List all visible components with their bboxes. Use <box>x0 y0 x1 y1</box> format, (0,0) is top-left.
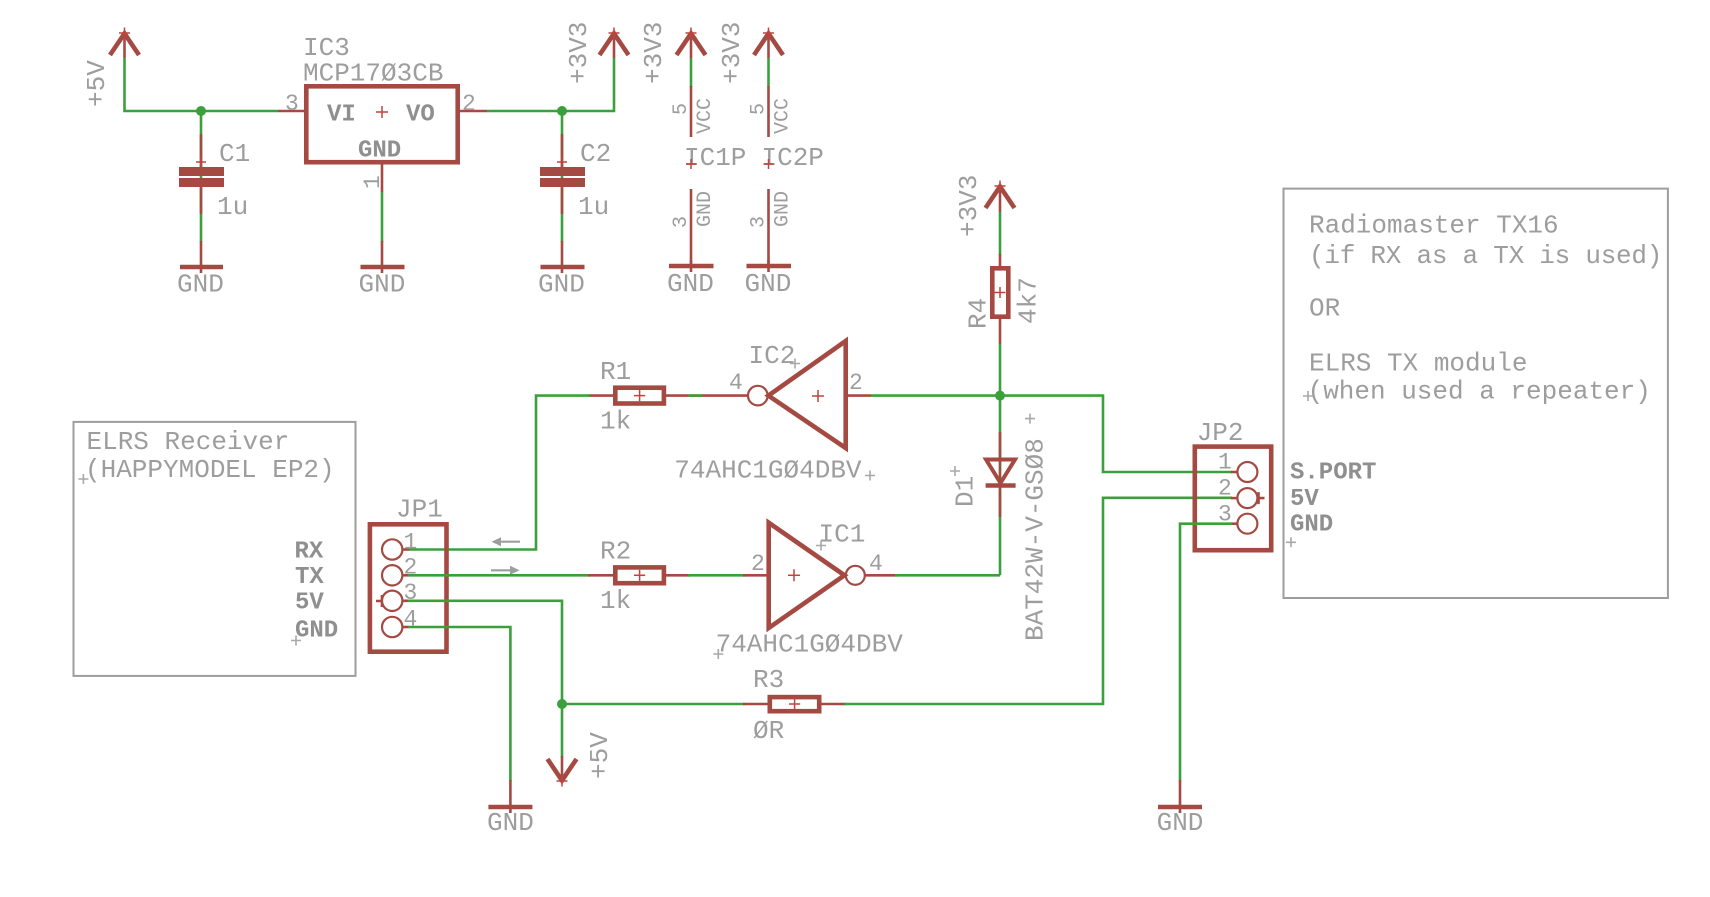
svg-text:4k7: 4k7 <box>1014 277 1044 324</box>
svg-text:+5V: +5V <box>585 732 615 779</box>
svg-text:5: 5 <box>748 103 771 115</box>
resistor R4 4k7 <box>964 254 1044 344</box>
wire R1 to IC2 <box>688 394 702 397</box>
wire R2 to IC1 input <box>688 574 745 577</box>
wire +3V3 to R4 <box>999 212 1002 255</box>
node junction at C2 tap <box>557 106 567 116</box>
svg-text:3: 3 <box>748 216 771 228</box>
svg-text:RX: RX <box>295 539 324 566</box>
node junction at C1 tap <box>196 106 206 116</box>
svg-text:2: 2 <box>404 555 418 581</box>
pin 1 IC3 GND <box>360 165 386 193</box>
svg-text:TX: TX <box>295 564 324 591</box>
svg-text:GND: GND <box>772 191 795 227</box>
direction arrow right (TX) <box>491 566 520 575</box>
svg-text:R4: R4 <box>964 298 994 329</box>
svg-text:VO: VO <box>406 102 435 129</box>
wire D1 vertical net <box>999 396 1002 576</box>
pin 3 IC2P GND <box>748 189 795 264</box>
svg-text:GND: GND <box>1290 512 1333 539</box>
svg-text:5V: 5V <box>1290 486 1319 513</box>
power part IC1P (inverter power pins) <box>684 143 746 173</box>
wire R4 to node <box>999 344 1002 396</box>
power symbol +3V3 (P2) <box>564 22 629 84</box>
svg-text:R3: R3 <box>753 665 784 695</box>
svg-text:IC2P: IC2P <box>762 143 824 173</box>
svg-text:ELRS Receiver: ELRS Receiver <box>87 427 290 457</box>
pin 3 JP1 <box>382 580 417 611</box>
svg-text:2: 2 <box>462 91 476 117</box>
svg-text:1: 1 <box>360 175 386 189</box>
pin 4 IC2 output <box>700 370 748 396</box>
svg-text:VI: VI <box>327 102 356 129</box>
wire net +3V3 output rail <box>487 58 614 111</box>
resistor R2 1k <box>588 537 690 616</box>
pin 2 JP2 <box>1218 476 1257 508</box>
svg-text:OR: OR <box>1309 294 1340 324</box>
pin 2 IC2 input <box>846 370 871 396</box>
wire C1 branch <box>200 111 203 242</box>
ground GND bottom left <box>487 780 534 838</box>
power symbol +5V (P1) <box>82 28 139 108</box>
pin 1 JP2 <box>1218 450 1257 482</box>
pin 5 IC2P VCC <box>748 86 795 137</box>
pin 5 IC1P VCC <box>670 86 717 137</box>
wire IC1P VCC net <box>690 58 693 87</box>
pin 3 JP2 <box>1218 501 1257 533</box>
svg-text:C1: C1 <box>219 139 250 169</box>
pin 3 IC1P GND <box>670 189 717 264</box>
op-amp U2 : inverter IC2 74AHC1G04DBV (mirrored, bubble left) <box>674 341 875 486</box>
resistor R1 1k <box>588 357 700 437</box>
wire RX net (JP1 pin1 to R1) <box>408 396 590 550</box>
svg-text:1: 1 <box>1218 450 1232 476</box>
svg-text:1u: 1u <box>217 192 248 222</box>
svg-text:VCC: VCC <box>772 98 795 134</box>
svg-text:(HAPPYMODEL EP2): (HAPPYMODEL EP2) <box>85 455 335 485</box>
svg-text:JP1: JP1 <box>396 495 443 525</box>
svg-text:4: 4 <box>869 551 883 577</box>
svg-text:(if RX as a TX is used): (if RX as a TX is used) <box>1309 241 1662 271</box>
power symbol +5V (down) <box>548 732 616 787</box>
wire 5V node to +5V arrow <box>561 704 564 757</box>
svg-text:GND: GND <box>667 269 714 299</box>
svg-text:GND: GND <box>538 270 585 300</box>
ground GND under C1 <box>177 241 224 300</box>
pin 4 JP1 <box>382 606 417 637</box>
wire IC2P VCC net <box>767 58 770 87</box>
wire IC3 GND pin to ground <box>381 192 384 242</box>
svg-text:+3V3: +3V3 <box>954 175 984 237</box>
ground GND under C2 <box>538 241 585 300</box>
svg-text:S.PORT: S.PORT <box>1290 460 1376 487</box>
capacitor C2 <box>540 134 611 222</box>
svg-text:C2: C2 <box>580 139 611 169</box>
power symbol +3V3 at IC2P <box>717 22 783 84</box>
node junction 5V tap <box>557 699 567 709</box>
pin 3 IC3 VI <box>278 91 304 117</box>
svg-text:(when used a repeater): (when used a repeater) <box>1308 376 1651 406</box>
frame box Radiomaster TX16 <box>1284 189 1668 598</box>
wire C2 branch <box>561 111 564 242</box>
svg-text:74AHC1GØ4DBV: 74AHC1GØ4DBV <box>674 456 862 486</box>
wire 5V net (JP1 pin3 down to node) <box>408 601 562 704</box>
ground GND bottom right <box>1157 780 1204 838</box>
svg-text:R2: R2 <box>600 537 631 567</box>
svg-text:ØR: ØR <box>753 716 784 746</box>
svg-text:GND: GND <box>745 269 792 299</box>
pin 4 IC1 output <box>865 551 897 577</box>
svg-text:2: 2 <box>751 551 765 577</box>
svg-text:MCP17Ø3CB: MCP17Ø3CB <box>303 59 443 89</box>
wire R3 to JP2 pin 2 <box>844 498 1232 704</box>
svg-text:5V: 5V <box>295 590 324 617</box>
pin 2 IC3 VO <box>460 91 487 117</box>
ground GND under IC3 <box>359 241 406 300</box>
svg-text:3: 3 <box>404 580 418 606</box>
svg-text:GND: GND <box>359 270 406 300</box>
svg-text:1u: 1u <box>578 192 609 222</box>
frame box ELRS Receiver <box>74 422 356 676</box>
svg-text:1k: 1k <box>600 407 631 437</box>
svg-text:VCC: VCC <box>694 98 717 134</box>
wire 5V net row to R3 <box>562 703 745 706</box>
ground GND under IC1P <box>667 260 714 299</box>
wire GND net (JP2 pin3 down) <box>1180 524 1232 781</box>
svg-text:GND: GND <box>487 808 534 838</box>
svg-text:+3V3: +3V3 <box>717 22 747 84</box>
svg-text:D1: D1 <box>951 476 981 507</box>
svg-text:GND: GND <box>1157 808 1204 838</box>
pin 2 JP1 <box>382 555 417 586</box>
svg-text:GND: GND <box>694 191 717 227</box>
wire net +5V top rail <box>125 58 279 111</box>
power symbol +3V3 above R4 <box>954 175 1015 237</box>
capacitor C1 <box>179 134 250 222</box>
pin name GND <box>1286 512 1333 548</box>
svg-text:1k: 1k <box>600 586 631 616</box>
svg-text:3: 3 <box>285 91 299 117</box>
svg-text:IC1P: IC1P <box>684 143 746 173</box>
ground GND under IC2P <box>745 260 792 299</box>
svg-text:+5V: +5V <box>82 60 112 107</box>
svg-text:5: 5 <box>670 103 693 115</box>
svg-text:2: 2 <box>1218 476 1232 502</box>
svg-text:GND: GND <box>295 618 338 645</box>
power part IC2P (inverter power pins) <box>762 143 824 173</box>
connector JP2 <box>1195 418 1271 550</box>
svg-text:IC2: IC2 <box>749 341 796 371</box>
node junction at R4/D1 tap <box>995 391 1005 401</box>
connector JP1 <box>370 495 447 652</box>
svg-text:R1: R1 <box>600 357 631 387</box>
pin 1 JP1 <box>382 529 417 559</box>
svg-text:GND: GND <box>358 138 401 165</box>
svg-text:JP2: JP2 <box>1197 418 1244 448</box>
svg-text:BAT42W-V-GSØ8: BAT42W-V-GSØ8 <box>1021 438 1051 641</box>
op-amp U1 : voltage regulator IC3 MCP1703CB <box>303 33 458 165</box>
op-amp U3 : inverter IC1 74AHC1G04DBV <box>713 520 903 660</box>
svg-text:4: 4 <box>729 370 743 396</box>
svg-text:1: 1 <box>404 529 418 555</box>
svg-text:74AHC1GØ4DBV: 74AHC1GØ4DBV <box>716 630 904 660</box>
svg-text:4: 4 <box>404 606 418 632</box>
svg-text:+3V3: +3V3 <box>564 22 594 84</box>
svg-text:ELRS TX module: ELRS TX module <box>1309 349 1527 379</box>
wire GND net (JP1 pin4 down) <box>408 627 510 781</box>
resistor R3 0R <box>743 665 846 746</box>
wire TX net (JP1 pin2 to R2) <box>408 574 590 577</box>
pin 2 IC1 input <box>743 551 769 577</box>
svg-text:+3V3: +3V3 <box>639 22 669 84</box>
wire IC1 output to D1 <box>895 574 1000 577</box>
power symbol +3V3 at IC1P <box>639 22 706 84</box>
diode D1 BAT42W-V-GS08 <box>950 414 1051 641</box>
wire net S.PORT row (IC2 output to JP2 pin 1) <box>871 396 1232 472</box>
pin name GND <box>291 618 338 646</box>
svg-text:3: 3 <box>670 216 693 228</box>
svg-text:GND: GND <box>177 270 224 300</box>
svg-text:Radiomaster TX16: Radiomaster TX16 <box>1309 211 1559 241</box>
direction arrow left (RX) <box>492 537 521 546</box>
svg-text:2: 2 <box>849 370 863 396</box>
